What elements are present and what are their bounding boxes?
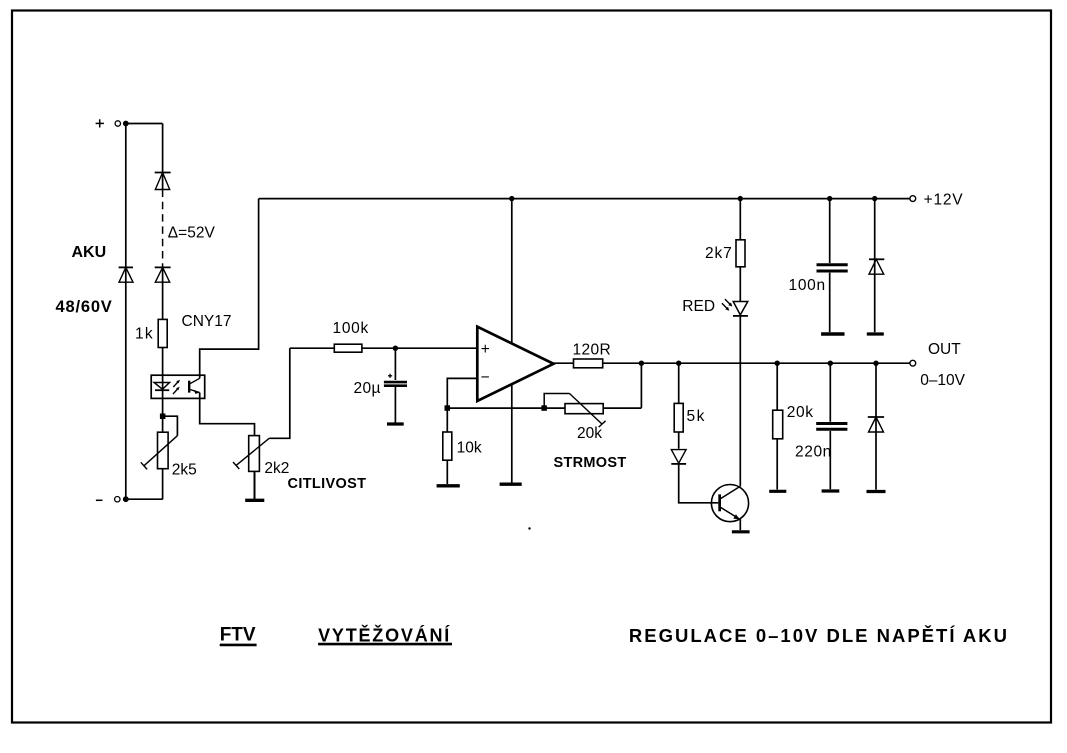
- potentiometer P2 2k2: [233, 436, 269, 472]
- wire op-amp output rail OUT: [554, 362, 910, 364]
- wire feedback horizontal: [447, 407, 641, 409]
- LED arrow 1: [725, 299, 732, 306]
- node junction at 120R output: [639, 361, 644, 366]
- svg-text:+12V: +12V: [924, 191, 964, 208]
- node junction square at inverting node: [445, 405, 451, 411]
- opto phototransistor: [188, 378, 200, 394]
- wire battery bottom: [126, 498, 163, 500]
- ground at 100n: [821, 332, 844, 335]
- diode D3 lower of right branch: [155, 267, 171, 282]
- op-amp U2: [477, 327, 553, 401]
- wire op-amp supply vertical: [511, 199, 513, 483]
- wire right branch to 1k and optocoupler: [162, 267, 164, 375]
- svg-text:OUT: OUT: [928, 341, 961, 358]
- svg-text:0–10V: 0–10V: [920, 372, 965, 389]
- svg-text:2k5: 2k5: [172, 462, 197, 479]
- svg-text:48/60V: 48/60V: [56, 298, 113, 316]
- ground at upper zener: [867, 332, 884, 335]
- LED arrow 2: [722, 303, 729, 310]
- node junction at 5k branch: [676, 361, 681, 366]
- ground at lower zener: [867, 490, 886, 493]
- wire opto emitter down to 2k2: [200, 393, 255, 436]
- ground at 2k2: [245, 499, 264, 502]
- wire battery left rail: [125, 124, 127, 500]
- node minus terminal of AKU: [96, 499, 103, 501]
- svg-text:REGULACE 0–10V DLE NAPĚTÍ AKU: REGULACE 0–10V DLE NAPĚTÍ AKU: [629, 625, 1009, 646]
- svg-text:1k: 1k: [135, 326, 154, 343]
- potentiometer P3 20k STRMOST: [544, 394, 605, 428]
- resistor R1 1k: [158, 319, 167, 347]
- wire battery top: [126, 123, 163, 125]
- resistor R5 5k: [674, 363, 683, 449]
- svg-text:5k: 5k: [687, 408, 706, 425]
- svg-text:AKU: AKU: [72, 244, 107, 261]
- wire LED cathode to transistor collector: [739, 316, 741, 486]
- svg-text:CNY17: CNY17: [182, 313, 232, 330]
- svg-text:RED: RED: [682, 298, 715, 315]
- svg-text:220n: 220n: [795, 444, 832, 461]
- svg-text:2k7: 2k7: [705, 245, 733, 262]
- ground at 220n: [822, 489, 840, 492]
- wire non-inverting input line: [290, 347, 478, 349]
- wire 2k2 wiper to op-amp input: [269, 348, 290, 438]
- diode D2 top of right branch: [155, 173, 171, 190]
- opto light arrow 1: [173, 380, 180, 387]
- LED D5 RED: [733, 302, 748, 316]
- svg-text:+: +: [481, 341, 490, 358]
- svg-text:2k2: 2k2: [264, 460, 289, 477]
- svg-text:20k: 20k: [787, 404, 814, 421]
- wire LED cathode to 2k5 and bottom rail: [162, 398, 164, 499]
- ground at 10k: [437, 484, 460, 487]
- wire dashed delta segment: [162, 190, 164, 268]
- svg-text:CITLIVOST: CITLIVOST: [288, 476, 367, 492]
- node junction square at 20k wiper tap: [541, 405, 547, 411]
- resistor R2 100k: [334, 344, 362, 352]
- zener D7 on +12V rail: [869, 199, 884, 333]
- capacitor C1 20u: [384, 348, 407, 422]
- svg-text:100n: 100n: [789, 277, 826, 294]
- capacitor C3 100n: [817, 199, 848, 333]
- node junction zener lower: [873, 361, 878, 366]
- wire 2k2 bottom to ground: [254, 471, 256, 499]
- node plus terminal of AKU: [96, 122, 104, 124]
- node junction at 100k output: [393, 346, 398, 351]
- wire +12V rail: [259, 198, 910, 200]
- transistor Q1: [711, 485, 748, 522]
- svg-text:100k: 100k: [333, 320, 369, 337]
- node +12V output terminal: [910, 196, 916, 202]
- wire feedback vertical drop: [640, 363, 642, 408]
- opto-coupler U1 CNY17 box: [151, 375, 205, 398]
- ground at op-amp supply: [500, 483, 522, 486]
- opto light arrow 2: [173, 387, 180, 394]
- svg-text:−: −: [481, 369, 490, 386]
- svg-text:Δ=52V: Δ=52V: [168, 225, 216, 242]
- wire emitter to ground: [739, 519, 741, 530]
- wire opto collector up and over to +12V rail: [200, 199, 259, 379]
- node junction 20k output divider: [775, 361, 780, 366]
- diode D4 below 5k: [671, 450, 686, 464]
- ground bar below 20u: [387, 422, 404, 425]
- resistor R7 20k: [773, 363, 783, 489]
- wire diode to transistor base: [679, 464, 719, 503]
- stray dot mark: [528, 527, 530, 529]
- node junction 100n: [827, 196, 832, 201]
- wire inverting input: [447, 378, 477, 408]
- svg-text:STRMOST: STRMOST: [554, 455, 627, 471]
- wire junction to 2k5 wiper: [163, 416, 178, 436]
- svg-text:20k: 20k: [577, 425, 602, 442]
- resistor R3 10k: [443, 408, 452, 484]
- svg-text:VYTĚŽOVÁNÍ: VYTĚŽOVÁNÍ: [318, 625, 451, 646]
- node junction square at 2k5 top: [160, 414, 166, 420]
- resistor R4 120R: [574, 359, 603, 368]
- svg-text:120R: 120R: [573, 341, 612, 358]
- node junction 2k7 on +12V rail: [738, 196, 743, 201]
- node OUT terminal: [910, 360, 916, 366]
- ground at 20k: [769, 490, 786, 493]
- svg-text:20µ: 20µ: [354, 380, 381, 397]
- diode D1 on left rail: [119, 267, 133, 282]
- node junction 220n: [828, 361, 833, 366]
- capacitor C2 220n: [816, 363, 847, 489]
- ground at transistor emitter: [732, 530, 750, 533]
- opto LED: [154, 375, 169, 398]
- resistor R6 2k7: [736, 199, 745, 302]
- node junction supply on +12V rail: [509, 196, 514, 201]
- node junction zener upper: [872, 196, 877, 201]
- wire right branch top: [162, 124, 164, 190]
- svg-text:10k: 10k: [457, 440, 482, 457]
- svg-text:FTV: FTV: [220, 625, 256, 646]
- zener D6 on OUT rail: [868, 363, 884, 490]
- potentiometer P1 2k5: [141, 432, 178, 469]
